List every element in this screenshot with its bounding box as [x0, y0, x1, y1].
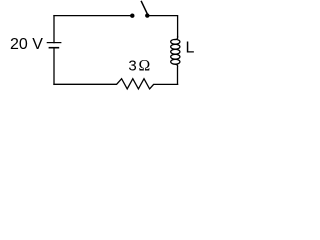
svg-text:3 Ω: 3 Ω: [128, 58, 150, 75]
svg-text:L: L: [186, 39, 195, 56]
svg-text:20 V: 20 V: [10, 36, 43, 53]
